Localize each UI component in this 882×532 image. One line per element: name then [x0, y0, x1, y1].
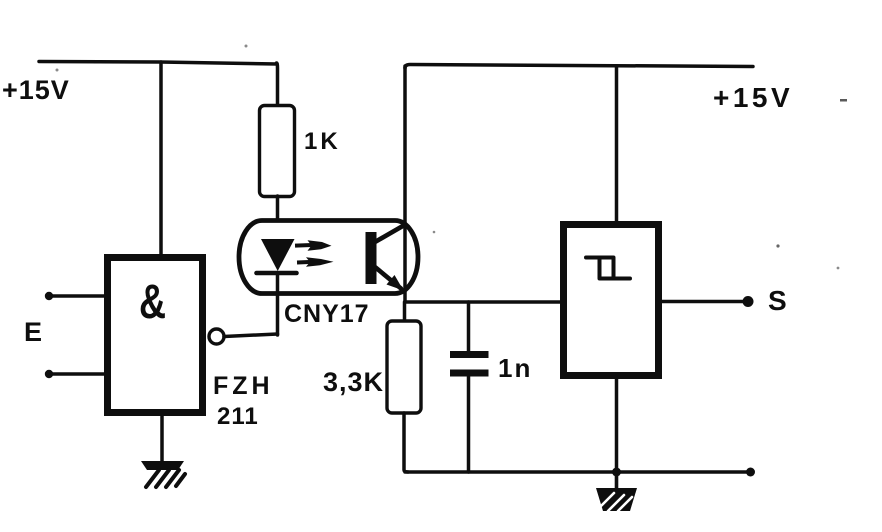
node S terminal dot — [743, 296, 754, 307]
wire input 2 — [49, 372, 105, 376]
hysteresis symbol — [586, 258, 630, 279]
svg-text:CNY17: CNY17 — [284, 300, 370, 328]
wire NAND bottom to ground — [160, 412, 164, 462]
wire left +15V rail — [39, 62, 277, 65]
node bottom-right terminal dot — [746, 468, 755, 477]
wire schmitt output to S — [661, 300, 747, 304]
svg-text:FZH: FZH — [213, 372, 274, 400]
diode D1 LED of CNY17 — [261, 239, 295, 271]
wire R1 to optocoupler LED anode — [276, 196, 280, 240]
resistor R2 3,3K — [403, 302, 407, 321]
capacitor C1 1n — [467, 302, 471, 352]
ground symbol (right) — [596, 472, 637, 511]
collector — [375, 225, 405, 242]
wire bottom ground rail — [405, 470, 751, 474]
transistor Q1 of CNY17 — [366, 225, 405, 291]
wire rail down through optocoupler to node A — [403, 66, 407, 302]
wire right +15V rail — [405, 65, 753, 69]
svg-text:+15V: +15V — [713, 82, 793, 113]
scan specks (noise) — [56, 45, 848, 270]
svg-text:211: 211 — [217, 403, 259, 430]
node input 1 dot — [45, 292, 53, 300]
schmitt trigger U2 box — [564, 225, 659, 376]
ground symbol (left) — [141, 461, 185, 487]
svg-text:+15V: +15V — [2, 75, 70, 105]
resistor R1 1K — [260, 106, 295, 197]
junction dot schmitt ground — [612, 468, 621, 477]
emitter — [375, 267, 401, 289]
svg-text:1K: 1K — [304, 128, 341, 155]
wire input 1 — [49, 294, 105, 298]
wire bubble to LED cathode — [224, 334, 278, 337]
wire rail to schmitt trigger top — [615, 66, 619, 224]
svg-text:&: & — [139, 276, 166, 330]
wire R2 bottom to ground rail — [404, 413, 408, 472]
svg-text:S: S — [768, 285, 787, 316]
light arrow 2 — [297, 257, 334, 267]
light arrow 1 — [295, 240, 332, 251]
wire rail to resistor R1 — [277, 63, 278, 105]
wire LED cathode down to NAND output — [276, 273, 280, 335]
wire rail to NAND gate top — [159, 62, 163, 256]
svg-text:1n: 1n — [498, 353, 532, 383]
wire schmitt bottom to ground rail — [615, 375, 619, 472]
op-amp U1 optocoupler CNY17 body — [239, 221, 418, 294]
svg-text:3,3K: 3,3K — [323, 367, 384, 397]
gate U3 NAND FZH211 box — [108, 258, 203, 413]
node A wire to schmitt input — [405, 300, 561, 304]
node input 2 dot — [45, 370, 53, 378]
output bubble — [209, 329, 224, 344]
svg-text:E: E — [24, 317, 42, 347]
